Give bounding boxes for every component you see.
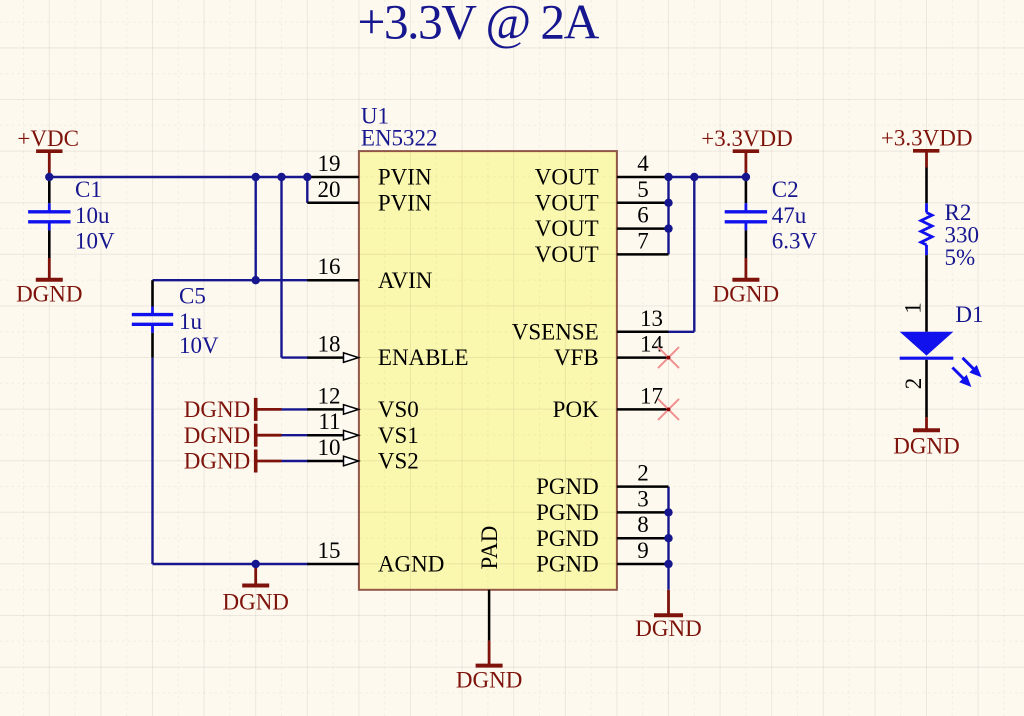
ground DGND below C1	[36, 258, 63, 280]
wire VSENSE horizontal to pin 13	[669, 331, 695, 333]
junction VOUT pin 4 / bus	[664, 173, 672, 181]
svg-text:+3.3V @ 2A: +3.3V @ 2A	[357, 0, 599, 49]
junction PGND pin 9 / bus	[664, 560, 672, 568]
svg-text:ENABLE: ENABLE	[378, 345, 469, 370]
pin 9 (PGND) lead	[617, 563, 669, 566]
junction VOUT pin 5 / bus	[664, 199, 672, 207]
wire VSENSE vertical	[693, 177, 695, 332]
svg-text:3: 3	[637, 486, 649, 511]
junction PGND pin 8 / bus	[664, 534, 672, 542]
wire PVIN rail down to AVIN row	[254, 177, 256, 280]
svg-text:DGND: DGND	[184, 397, 250, 422]
no-connect X at pin 17 POK	[658, 399, 679, 420]
pin 13 (VSENSE) lead	[617, 331, 669, 334]
svg-text:19: 19	[318, 151, 341, 176]
wire VOUT bus vertical pins 4-7	[667, 177, 669, 254]
capacitor C2 symbol	[725, 177, 767, 258]
svg-text:+3.3VDD: +3.3VDD	[701, 126, 793, 151]
svg-text:10V: 10V	[179, 333, 219, 358]
svg-text:10: 10	[318, 435, 341, 460]
LED D1 symbol	[900, 332, 982, 417]
svg-text:PGND: PGND	[536, 474, 599, 499]
svg-text:47u: 47u	[772, 203, 807, 228]
power port +3.3VDD symbol (C2)	[733, 151, 759, 177]
node +VDC / C1 / PVIN rail	[45, 173, 53, 181]
svg-text:20: 20	[318, 177, 341, 202]
svg-text:6.3V: 6.3V	[772, 229, 818, 254]
svg-text:DGND: DGND	[456, 667, 522, 692]
pin 12 (VS0) lead	[307, 405, 358, 415]
svg-text:+3.3VDD: +3.3VDD	[881, 126, 973, 151]
pin 7 (VOUT) lead	[617, 253, 669, 256]
junction AVIN row	[252, 276, 260, 284]
junction PGND pin 3 / bus	[664, 508, 672, 516]
pin 20 (PVIN) lead	[307, 202, 359, 205]
svg-text:AGND: AGND	[378, 552, 444, 577]
svg-text:16: 16	[318, 254, 341, 279]
pin 2 (PGND) lead	[617, 485, 669, 488]
wire VOUT row to +3.3VDD / C2	[669, 176, 746, 178]
svg-text:+VDC: +VDC	[17, 126, 79, 151]
wire VS0 segment	[282, 408, 309, 410]
svg-text:12: 12	[318, 383, 341, 408]
svg-text:8: 8	[637, 512, 649, 537]
ground DGND symbol at VS2	[256, 450, 282, 473]
svg-text:DGND: DGND	[184, 423, 250, 448]
svg-text:POK: POK	[553, 397, 599, 422]
svg-text:1: 1	[901, 302, 926, 314]
node +3.3VDD / C2	[742, 173, 750, 181]
junction VOUT pin 6 / bus	[664, 224, 672, 232]
svg-text:DGND: DGND	[635, 616, 701, 641]
no-connect X at pin 14 VFB	[658, 347, 679, 368]
svg-text:DGND: DGND	[893, 434, 959, 459]
power port +3.3VDD symbol (R2)	[913, 151, 939, 168]
svg-text:PAD: PAD	[477, 526, 502, 570]
pin PAD lead	[488, 590, 491, 641]
svg-text:7: 7	[637, 228, 649, 253]
IC U1 EN5322 body	[359, 151, 617, 590]
svg-text:PGND: PGND	[536, 500, 599, 525]
svg-text:C1: C1	[75, 177, 102, 202]
pin 10 (VS2) lead	[307, 456, 358, 466]
svg-text:9: 9	[637, 538, 649, 563]
pin 8 (PGND) lead	[617, 537, 669, 540]
junction AGND row / DGND	[252, 560, 260, 568]
pin 4 (VOUT) lead	[617, 176, 669, 179]
svg-text:DGND: DGND	[713, 282, 779, 307]
svg-text:EN5322: EN5322	[361, 126, 438, 151]
svg-text:C2: C2	[772, 177, 799, 202]
svg-text:VOUT: VOUT	[535, 216, 599, 241]
ground DGND symbol at AGND wire	[242, 564, 269, 586]
svg-text:VFB: VFB	[554, 345, 599, 370]
pin 11 (VS1) lead	[307, 430, 358, 440]
svg-text:15: 15	[318, 538, 341, 563]
svg-text:11: 11	[318, 409, 340, 434]
svg-text:2: 2	[901, 378, 926, 390]
svg-text:14: 14	[640, 332, 664, 357]
pin 15 (AGND) lead	[307, 563, 359, 566]
svg-text:10u: 10u	[75, 203, 110, 228]
svg-text:VS1: VS1	[378, 423, 419, 448]
wire VS1 segment	[282, 434, 309, 436]
capacitor C1 symbol	[28, 177, 70, 258]
svg-text:18: 18	[318, 332, 341, 357]
svg-text:D1: D1	[955, 302, 983, 327]
pin 3 (PGND) lead	[617, 511, 669, 514]
power port +VDC symbol	[36, 151, 62, 177]
svg-text:VS2: VS2	[378, 449, 419, 474]
junction rail to pin 20 drop	[303, 173, 311, 181]
svg-text:5%: 5%	[945, 245, 976, 270]
ground DGND symbol at PGND bus	[654, 590, 683, 615]
junction rail to ENABLE drop	[277, 173, 285, 181]
svg-text:DGND: DGND	[222, 590, 288, 615]
pin 17 (POK) lead	[617, 408, 669, 411]
resistor R2 symbol	[921, 168, 932, 332]
pin 5 (VOUT) lead	[617, 202, 669, 205]
pin 18 (ENABLE) lead	[307, 353, 358, 363]
svg-text:AVIN: AVIN	[378, 268, 433, 293]
svg-text:4: 4	[637, 151, 649, 176]
svg-text:PGND: PGND	[536, 526, 599, 551]
junction rail to AVIN drop	[252, 173, 260, 181]
wire +VDC rail to pin 19 PVIN	[49, 176, 307, 178]
svg-text:R2: R2	[945, 200, 972, 225]
wire ENABLE horizontal to pin 18	[282, 356, 309, 358]
wire C5 bottom to AGND row	[151, 358, 153, 564]
pin 19 (PVIN) lead	[307, 176, 359, 179]
svg-text:10V: 10V	[75, 229, 115, 254]
wire branch down to pin 20	[306, 176, 308, 203]
ground DGND symbol at VS1	[256, 424, 282, 447]
svg-text:17: 17	[640, 383, 663, 408]
svg-text:13: 13	[640, 306, 663, 331]
wire AGND row to pin 15	[153, 563, 309, 565]
svg-text:VS0: VS0	[378, 397, 419, 422]
pin 6 (VOUT) lead	[617, 227, 669, 230]
ground DGND symbol at VS0	[256, 398, 282, 421]
pin 16 (AVIN) lead	[307, 279, 359, 282]
wire PGND bus vertical pins 2,3,8,9	[667, 487, 669, 590]
svg-text:VOUT: VOUT	[535, 190, 599, 215]
svg-text:VSENSE: VSENSE	[512, 319, 599, 344]
svg-text:PGND: PGND	[536, 552, 599, 577]
svg-text:VOUT: VOUT	[535, 242, 599, 267]
svg-text:U1: U1	[361, 103, 389, 128]
svg-text:5: 5	[637, 177, 649, 202]
svg-text:6: 6	[637, 203, 649, 228]
svg-text:2: 2	[637, 461, 649, 486]
wire ENABLE vertical	[280, 177, 282, 358]
svg-text:DGND: DGND	[16, 282, 82, 307]
wire AVIN row	[153, 279, 309, 281]
wire VS2 segment	[282, 460, 309, 462]
junction VOUT row / VSENSE drop	[690, 173, 698, 181]
svg-text:PVIN: PVIN	[378, 190, 432, 215]
svg-text:DGND: DGND	[184, 449, 250, 474]
ground DGND below C2	[732, 258, 759, 280]
pin 14 (VFB) lead	[617, 356, 669, 359]
ground DGND symbol at PAD	[476, 641, 503, 666]
svg-text:VOUT: VOUT	[535, 165, 599, 190]
svg-text:C5: C5	[179, 283, 206, 308]
svg-text:330: 330	[945, 223, 980, 248]
svg-text:1u: 1u	[179, 309, 203, 334]
svg-text:PVIN: PVIN	[378, 165, 432, 190]
capacitor C5 symbol	[132, 280, 173, 357]
ground DGND symbol at D1	[913, 417, 940, 430]
